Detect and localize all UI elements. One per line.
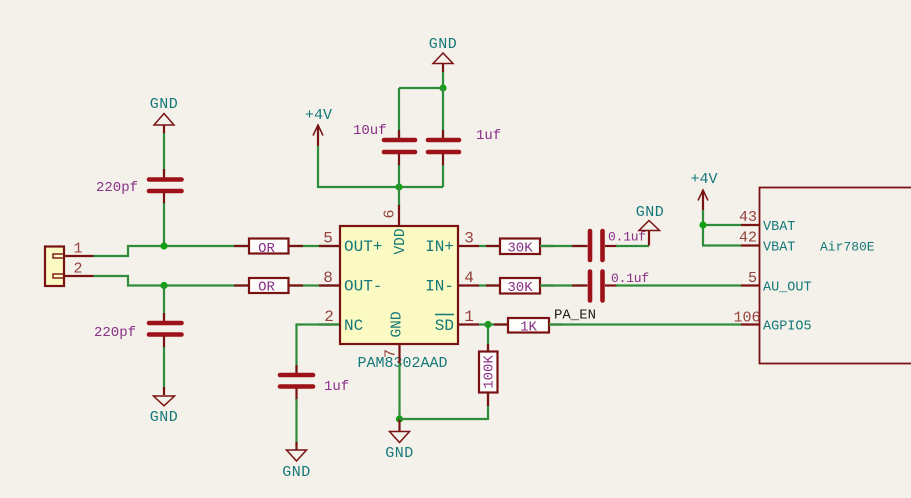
svg-text:2: 2 [73, 261, 82, 278]
svg-text:3: 3 [464, 230, 474, 248]
resistor R3 30K [486, 239, 554, 257]
junction node VDD [395, 183, 402, 190]
resistor R4 30K [486, 278, 554, 296]
wire C2 to GND [163, 347, 165, 390]
svg-text:42: 42 [739, 230, 757, 247]
wire C6 to GND [616, 245, 649, 247]
svg-text:NC: NC [344, 317, 363, 335]
ground GND below C5 [282, 442, 311, 481]
ground GND below U1 [385, 419, 414, 462]
junction node GND [396, 415, 403, 422]
svg-text:GND: GND [150, 96, 179, 113]
svg-text:30K: 30K [507, 241, 533, 257]
wire C1 to node [163, 203, 165, 246]
svg-text:4: 4 [464, 269, 474, 287]
resistor R6 100K vertical [479, 344, 498, 406]
pin 42 VBAT [739, 230, 795, 256]
svg-text:OR: OR [258, 241, 275, 257]
wire node to C2 [163, 286, 165, 321]
svg-text:GND: GND [429, 36, 458, 53]
wire cap top rail [399, 87, 443, 89]
power +4V right [690, 171, 717, 211]
ground GND top-left [150, 96, 179, 134]
svg-text:GND: GND [390, 311, 406, 337]
pin 2 NC [319, 308, 363, 335]
wire U1 pin4 to R4 [479, 284, 500, 286]
capacitor C5 1uf [280, 365, 349, 401]
pin 5 OUT+ [319, 230, 382, 257]
svg-text:106: 106 [733, 310, 760, 327]
wire +4V to VBAT pins [703, 210, 741, 225]
svg-text:1K: 1K [520, 320, 537, 336]
wire R3 to C6 [540, 245, 586, 247]
svg-text:GND: GND [282, 464, 311, 481]
resistor R2 0R [234, 278, 303, 296]
svg-text:5: 5 [323, 230, 333, 248]
ground GND right of C6 [636, 204, 665, 246]
svg-text:GND: GND [150, 409, 179, 426]
wire SD to R5 [479, 323, 508, 325]
svg-text:6: 6 [382, 209, 399, 218]
svg-text:2: 2 [324, 308, 334, 326]
wire net OUT- from J1 pin2 [94, 276, 340, 286]
wire down to C3 [398, 88, 400, 137]
capacitor C3 10uf [353, 123, 415, 166]
ground GND bottom-left [150, 387, 179, 426]
svg-text:AU_OUT: AU_OUT [763, 281, 812, 296]
svg-text:1: 1 [73, 241, 82, 258]
pin 106 AGPIO5 [733, 310, 811, 335]
capacitor C4 1uf [428, 128, 501, 166]
svg-text:0.1uf: 0.1uf [611, 271, 649, 286]
wire GND down [442, 72, 444, 88]
wire R6 top to node SD [487, 325, 489, 339]
junction node OUT- [160, 282, 167, 289]
svg-text:7: 7 [383, 349, 400, 358]
wire GND to C1 [163, 133, 165, 176]
svg-text:1uf: 1uf [324, 379, 349, 395]
svg-text:OUT-: OUT- [344, 278, 382, 296]
junction node OUT+ [160, 242, 167, 249]
wire net OUT+ from J1 pin1 [94, 246, 340, 256]
svg-text:Air780E: Air780E [820, 240, 875, 255]
svg-text:220pf: 220pf [96, 180, 138, 196]
svg-text:0.1uf: 0.1uf [608, 230, 646, 245]
capacitor C2 220pf [94, 313, 182, 349]
wire GND node to R6 [400, 338, 489, 419]
svg-text:VBAT: VBAT [763, 241, 795, 256]
resistor R1 0R [234, 239, 303, 258]
capacitor C1 220pf [96, 169, 182, 204]
svg-text:1: 1 [464, 308, 474, 326]
wire down to C4 [442, 88, 444, 137]
wire NC branch [297, 325, 340, 373]
svg-text:GND: GND [385, 445, 414, 462]
junction node cap top [439, 84, 446, 91]
svg-text:VBAT: VBAT [763, 220, 795, 235]
resistor R5 1K [494, 318, 563, 336]
wire PA_EN net to U2 AGPIO5 [549, 323, 741, 325]
power +4V left [305, 107, 332, 146]
wire C5 to GND [295, 399, 297, 445]
IC U2 Air780E body [760, 188, 911, 364]
connector J1 [45, 241, 94, 287]
capacitor C7 0.1uf [572, 271, 649, 301]
svg-text:10uf: 10uf [353, 123, 387, 139]
wire C4 to rail [442, 165, 444, 187]
pin 6 VDD [382, 205, 410, 255]
svg-text:1uf: 1uf [476, 128, 501, 144]
op-amp U1 PAM8302AAD body [340, 226, 458, 372]
svg-text:IN-: IN- [425, 278, 454, 296]
svg-text:GND: GND [636, 204, 665, 221]
svg-text:+4V: +4V [690, 171, 717, 188]
svg-text:220pf: 220pf [94, 325, 136, 341]
pin 43 VBAT [739, 209, 795, 235]
pin 5 AU_OUT [741, 270, 812, 296]
capacitor C6 0.1uf [572, 230, 646, 261]
wire R4 to C7 [540, 284, 586, 286]
svg-text:PA_EN: PA_EN [554, 308, 596, 324]
svg-text:SD: SD [435, 317, 454, 335]
svg-text:100K: 100K [482, 355, 498, 389]
pin 3 IN+ [425, 230, 479, 257]
svg-text:43: 43 [739, 209, 757, 226]
wire U1 GND pin to node [398, 363, 400, 419]
pin 4 IN- [425, 269, 479, 296]
svg-text:VDD: VDD [393, 228, 409, 254]
svg-text:8: 8 [323, 269, 333, 287]
junction node VBAT [699, 221, 706, 228]
wire VDD to U1 pin6 [398, 187, 400, 207]
svg-text:30K: 30K [507, 280, 533, 296]
pin 8 OUT- [319, 269, 382, 296]
svg-text:PAM8302AAD: PAM8302AAD [357, 355, 447, 372]
svg-text:OUT+: OUT+ [344, 238, 382, 256]
wire U1 pin3 to R3 [479, 245, 500, 247]
svg-text:5: 5 [748, 270, 757, 287]
pin 1 SD [435, 308, 479, 335]
svg-text:AGPIO5: AGPIO5 [763, 320, 812, 335]
ground GND top-middle [429, 36, 458, 73]
svg-text:IN+: IN+ [425, 238, 454, 256]
pin 7 GND [383, 311, 406, 365]
wire +4V rail [318, 146, 443, 187]
wire C3 to rail [398, 165, 400, 187]
svg-text:OR: OR [258, 280, 275, 296]
junction node SD/PA_EN [484, 321, 491, 328]
svg-text:+4V: +4V [305, 107, 332, 124]
wire C7 to U2 AU_OUT [616, 284, 741, 286]
